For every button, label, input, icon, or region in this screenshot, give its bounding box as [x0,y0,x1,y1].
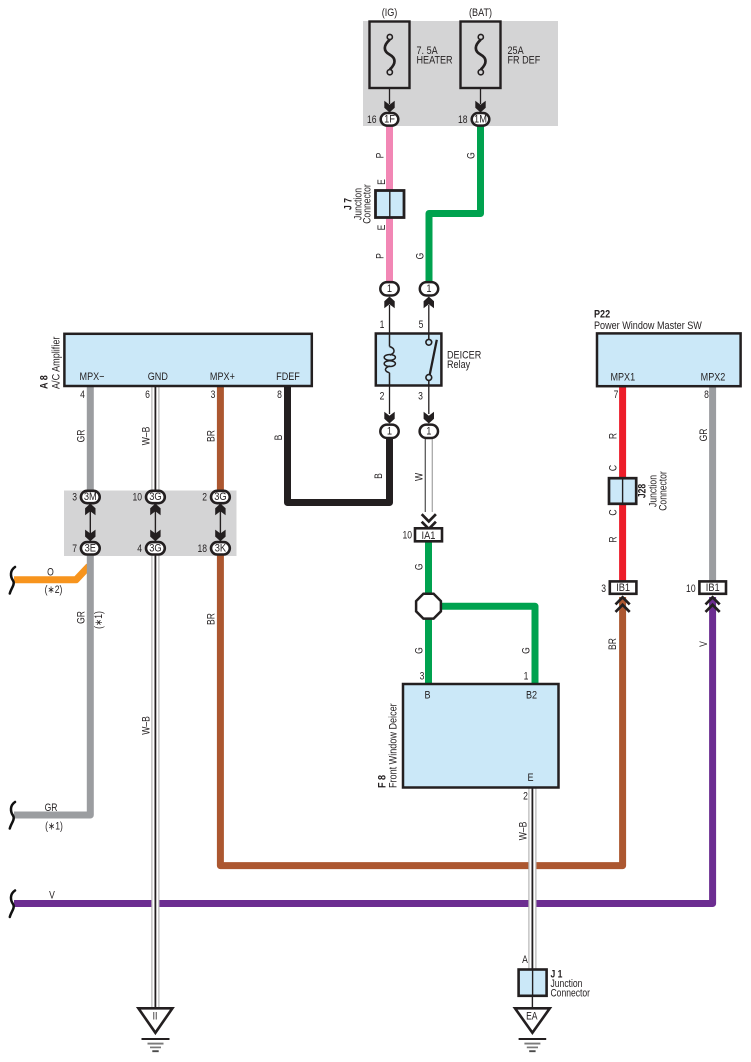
connector oval 3M [72,491,99,504]
svg-text:Relay: Relay [447,359,471,371]
svg-text:E: E [527,772,533,784]
connector oval 3G bottom mid [137,542,165,555]
wire P pink vertical lower [386,217,393,284]
svg-text:3: 3 [418,391,423,403]
wire R red J28 to IB1 [619,503,626,582]
svg-text:W–B: W–B [141,716,153,735]
svg-text:3G: 3G [149,492,162,504]
svg-text:(∗2): (∗2) [45,584,63,596]
svg-text:16: 16 [367,114,377,126]
wire W-B right F8 pin E to J1 [529,787,536,970]
svg-text:2: 2 [523,791,528,803]
svg-text:7: 7 [614,389,619,401]
svg-text:B: B [273,435,285,441]
svg-text:1: 1 [387,283,393,295]
svg-text:E: E [376,225,388,231]
connector oval 1M [458,113,489,126]
svg-text:W–B: W–B [518,822,530,841]
wire P pink vertical upper [386,125,393,191]
break squiggle purple [10,891,15,918]
ground EA [515,996,550,1051]
svg-text:B: B [373,473,385,479]
svg-text:A/C Amplifier: A/C Amplifier [51,336,63,389]
svg-text:A 8: A 8 [39,375,51,389]
svg-text:G: G [415,253,427,260]
break squiggle gray [10,802,15,829]
middle gray band [64,491,237,557]
svg-text:II: II [153,1011,158,1023]
wire GR gray A/C pin4 to 3M [87,385,94,492]
oval 1 below relay pin2 [380,425,398,438]
svg-text:GND: GND [148,371,168,383]
svg-text:1: 1 [387,426,393,438]
chevron into IA1 [422,514,436,529]
svg-text:1: 1 [380,319,385,331]
svg-text:1: 1 [524,671,529,683]
connector IA1 [402,528,442,542]
svg-text:A: A [522,954,528,966]
svg-text:3: 3 [211,389,216,401]
svg-text:(BAT): (BAT) [469,7,492,19]
oval 1 above relay pin1 [380,282,398,333]
svg-text:4: 4 [137,543,142,555]
svg-text:G: G [414,563,426,570]
svg-text:FDEF: FDEF [276,371,300,383]
wire BR brown long run from 3K to right IB1 [220,553,622,866]
svg-text:R: R [608,536,620,542]
svg-text:HEATER: HEATER [417,55,453,67]
svg-text:P: P [375,153,387,159]
junction connector J7 [343,179,404,230]
svg-text:3G: 3G [149,543,162,555]
svg-text:IB1: IB1 [616,582,630,594]
svg-text:8: 8 [704,389,709,401]
wire G green octagon to F8 pin B [425,616,432,684]
band connector arrows [85,504,226,542]
svg-text:(∗1): (∗1) [45,821,63,833]
wire W-B left A/C pin6 to ground [152,385,159,1008]
svg-text:3E: 3E [85,543,97,555]
wire W white relay pin3 to IA1 [424,437,426,512]
connector oval 3G top mid [132,491,164,504]
svg-text:BR: BR [607,638,619,650]
svg-text:BR: BR [206,430,218,442]
svg-text:B2: B2 [526,690,537,702]
svg-text:O: O [47,567,54,579]
svg-text:18: 18 [197,543,207,555]
connector oval 1F [367,113,398,126]
wire G green from 1M to relay oval [429,125,481,284]
svg-text:(IG): (IG) [382,7,398,19]
svg-text:2: 2 [202,492,207,504]
svg-text:FR DEF: FR DEF [508,55,541,67]
connector oval 3E [72,542,99,555]
svg-text:1: 1 [426,426,432,438]
wire B black FDEF to relay pin2 oval [288,385,390,503]
wire G green IA1 to octagon [425,540,432,596]
connector oval 3G top right [202,491,230,504]
svg-text:C: C [608,465,620,471]
svg-text:Connector: Connector [658,471,670,511]
svg-text:GR: GR [76,611,88,624]
P22 Power Window Master SW [594,309,741,386]
arrow below relay pin2 [389,386,391,415]
svg-text:3G: 3G [214,492,227,504]
A8 A/C Amplifier [39,334,312,389]
svg-text:3: 3 [601,583,606,595]
svg-text:C: C [608,509,620,515]
top gray band [363,21,558,126]
svg-text:Connector: Connector [362,184,374,224]
svg-text:IB1: IB1 [706,582,720,594]
svg-text:MPX−: MPX− [80,371,105,383]
fuse box IG [370,22,410,113]
svg-text:(∗1): (∗1) [93,611,105,629]
DEICER relay U1 [376,334,442,386]
svg-text:W: W [414,472,426,481]
svg-text:MPX+: MPX+ [210,371,235,383]
svg-text:1M: 1M [474,114,487,126]
svg-text:GR: GR [698,429,710,442]
wire BR brown A/C pin3 to 3G [217,385,224,492]
connector IB1 left [601,581,636,595]
svg-text:V: V [49,890,55,902]
svg-text:P: P [375,253,387,259]
F8 Front Window Deicer [377,684,559,788]
oval 1 below relay pin3 [420,425,438,438]
chevron below IB1 right [706,597,720,612]
svg-text:10: 10 [132,492,142,504]
fuse box BAT [461,22,501,113]
connector oval 3K [197,542,229,555]
svg-text:B: B [424,690,430,702]
wire R red P22 pin7 to J28 [619,385,626,480]
wire GR gray P22 pin8 to IB1 [709,385,716,582]
connector IB1 right [686,581,726,595]
junction connector J28 [609,471,670,511]
oval 1 above relay pin5 [420,282,438,333]
svg-text:4: 4 [80,389,85,401]
break squiggle orange [10,567,15,594]
svg-text:18: 18 [458,114,468,126]
svg-text:3M: 3M [84,492,97,504]
svg-text:1: 1 [426,283,432,295]
svg-text:10: 10 [686,583,696,595]
svg-text:MPX1: MPX1 [610,372,635,384]
svg-text:GR: GR [45,802,58,814]
svg-text:2: 2 [380,391,385,403]
svg-text:R: R [608,433,620,439]
svg-text:EA: EA [526,1011,538,1023]
svg-text:G: G [521,647,533,654]
svg-text:3: 3 [72,492,77,504]
wire GR gray below 3E with left exit [14,553,90,815]
svg-text:MPX2: MPX2 [701,372,726,384]
svg-text:8: 8 [277,389,282,401]
svg-text:6: 6 [145,389,150,401]
ground II [138,1008,172,1051]
wire G green octagon right branch to F8 pin B2 [438,606,535,684]
svg-text:W–B: W–B [141,427,153,446]
svg-text:Power Window Master SW: Power Window Master SW [594,320,702,332]
svg-text:5: 5 [419,319,424,331]
svg-text:1F: 1F [384,114,395,126]
svg-text:G: G [414,647,426,654]
svg-text:BR: BR [206,613,218,625]
svg-text:Front Window Deicer: Front Window Deicer [388,703,400,788]
chevron below IB1 left [616,597,630,612]
svg-text:G: G [466,152,478,159]
svg-text:GR: GR [76,430,88,443]
svg-text:3: 3 [420,671,425,683]
wire V purple long run to right IB1 [14,597,713,904]
svg-text:V: V [698,641,710,647]
svg-text:3K: 3K [215,543,227,555]
svg-text:7: 7 [72,543,77,555]
svg-text:P22: P22 [594,309,610,321]
svg-text:Connector: Connector [551,988,591,1000]
wire O orange branch [14,566,89,580]
svg-text:IA1: IA1 [422,530,436,542]
splice octagon [416,594,441,619]
junction connector J1 [519,969,591,1000]
svg-text:10: 10 [402,530,412,542]
svg-text:E: E [376,179,388,185]
arrow below relay pin3 [428,386,430,415]
